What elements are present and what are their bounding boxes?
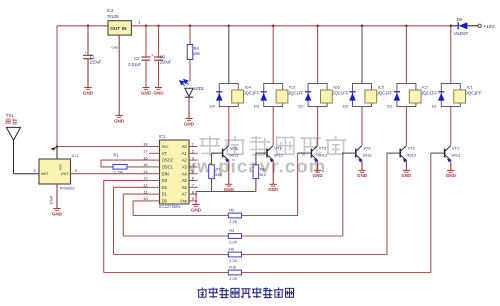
wire: R7 bottom drop: [211, 179, 213, 192]
svg-text:IC6: IC6: [333, 84, 340, 89]
wire: row R2 right segment: [242, 153, 298, 215]
diode D1 (relay IC1 flyback): [438, 91, 444, 93]
svg-text:OSC2: OSC2: [162, 158, 174, 163]
svg-text:VT3: VT3: [363, 145, 371, 150]
svg-text:VT7: VT7: [274, 145, 282, 150]
svg-text:A1: A1: [182, 151, 188, 156]
svg-text:R10: R10: [229, 265, 237, 270]
svg-text:D1: D1: [162, 192, 168, 197]
svg-text:IC2: IC2: [107, 8, 114, 13]
wire: VT8 base stub: [212, 152, 223, 154]
resistor R9: [228, 252, 241, 257]
relay IC6 JQC1FF: [308, 84, 327, 107]
svg-text:A2: A2: [182, 158, 188, 163]
svg-text:510: 510: [260, 172, 267, 177]
svg-text:TX1: TX1: [6, 113, 14, 118]
voltage regulator IC2 78L05: [108, 21, 131, 35]
ground: under C2: [141, 88, 152, 96]
svg-text:D3: D3: [162, 178, 168, 183]
led LED1: [180, 81, 185, 86]
resistor R2: [228, 213, 241, 218]
node: relay IC1 rail tap: [450, 25, 453, 28]
ground: under regulator: [114, 116, 125, 124]
wire: regulator OUT rail to left vertical: [57, 25, 108, 27]
wire: VT2 emitter to ground: [405, 160, 407, 170]
ground: receiver: [52, 209, 63, 217]
svg-text:GND: GND: [191, 207, 202, 212]
wire: row R9 left segment: [114, 254, 229, 256]
wire: relay IC6 to transistor collector: [317, 107, 319, 146]
wire: IC1 pin stubs: [149, 146, 160, 148]
svg-text:D4: D4: [210, 104, 216, 109]
svg-text:JQC1FF: JQC1FF: [332, 91, 348, 96]
transistor VT1 9013: [444, 149, 446, 158]
watermark line1 (gray CJK outline): [200, 136, 347, 156]
resistor R4: [189, 26, 191, 45]
relay IC4 JQC1FF: [219, 84, 238, 107]
svg-text:10K: 10K: [193, 51, 201, 56]
wire: R6 to base: [255, 153, 257, 165]
svg-text:D2: D2: [162, 185, 168, 190]
svg-text:510: 510: [215, 172, 222, 177]
svg-text:9013: 9013: [229, 153, 239, 158]
svg-text:GND: GND: [112, 46, 120, 50]
wire: Vss pin9 to ground: [196, 201, 198, 204]
relay IC3 JQC1FF: [264, 84, 283, 107]
wire: relay IC4 to transistor collector: [228, 107, 230, 146]
wire: VT5 emitter to ground: [317, 160, 319, 170]
diode D2 (relay IC2 flyback): [394, 91, 400, 93]
svg-text:R3: R3: [229, 228, 234, 233]
svg-text:A3: A3: [182, 165, 188, 170]
svg-text:0.01uF: 0.01uF: [128, 62, 141, 67]
svg-text:D3: D3: [343, 104, 349, 109]
svg-text:GND: GND: [401, 173, 412, 178]
relay IC1 JQC1FF: [441, 84, 460, 107]
ground: IC1 Vss: [191, 205, 202, 213]
wire: row R9 right segment: [242, 153, 388, 254]
ground: VT3 emitter: [357, 170, 368, 178]
wire: receiver OUT to DIN: [71, 173, 150, 175]
node: C1 tap junction: [87, 25, 90, 28]
svg-text:JQC1FF: JQC1FF: [466, 91, 482, 96]
ground: VT7 emitter: [268, 184, 279, 192]
svg-text:D3: D3: [254, 104, 260, 109]
svg-text:GND: GND: [312, 173, 323, 178]
svg-text:RXB062: RXB062: [60, 186, 76, 191]
diode D9 1N4007: [451, 25, 458, 27]
svg-text:GND: GND: [49, 196, 54, 205]
svg-text:17: 17: [143, 149, 148, 154]
wire: relay IC2 to transistor collector: [405, 107, 407, 146]
wire: R6 bottom drop: [255, 179, 257, 192]
ground: under C3: [153, 88, 164, 96]
svg-text:IC1: IC1: [72, 153, 79, 158]
node: relay IC2 rail tap: [405, 25, 408, 28]
wire: receiver Vcc stub: [56, 147, 58, 160]
capacitor C2: [145, 26, 147, 57]
svg-text:9013: 9013: [274, 153, 284, 158]
wire: D0 (pin13) to row4: [133, 201, 149, 216]
ground: VT5 emitter: [312, 170, 323, 178]
wire: relay IC3 coil to +12V rail: [272, 26, 274, 84]
wire: VT1 base stub: [431, 152, 445, 154]
svg-text:OUT: OUT: [61, 172, 70, 176]
wire: relay IC5 coil to +12V rail: [361, 26, 363, 84]
ground: VT8 emitter: [224, 184, 235, 192]
svg-text:78L05: 78L05: [107, 14, 120, 19]
svg-text:Vcc: Vcc: [162, 144, 169, 149]
svg-text:OSC1: OSC1: [162, 165, 174, 170]
svg-text:VT8: VT8: [230, 145, 238, 150]
svg-text:JQC1FF: JQC1FF: [421, 91, 437, 96]
node: module Vcc tap: [56, 145, 59, 148]
svg-text:220uF: 220uF: [90, 59, 102, 64]
svg-text:9013: 9013: [363, 153, 373, 158]
node: R4 tap: [189, 25, 192, 28]
wire: VT3 base stub: [342, 152, 356, 154]
resistor R1: [113, 165, 127, 170]
svg-text:A5: A5: [182, 178, 188, 183]
svg-text:VT1: VT1: [452, 145, 460, 150]
diode D2 (relay IC6 flyback): [305, 91, 311, 93]
svg-text:GND: GND: [114, 118, 125, 123]
diode D3 (relay IC3 flyback): [261, 91, 267, 93]
wire: relay IC6 coil to +12V rail: [317, 26, 319, 84]
node: C3 tap: [157, 25, 160, 28]
svg-text:9013: 9013: [451, 153, 461, 158]
svg-text:R2: R2: [229, 208, 234, 213]
svg-text:A6: A6: [182, 185, 188, 190]
wire: VT1 emitter to ground: [450, 160, 452, 170]
svg-text:D2: D2: [387, 104, 393, 109]
wire: row R2 left segment: [133, 215, 228, 217]
wire: VT3 emitter to ground: [361, 160, 363, 170]
wire: row R10 right segment: [242, 153, 431, 272]
wire: row R3 right segment: [242, 153, 343, 236]
wire: relay IC2 coil to +12V rail: [405, 26, 407, 84]
wire: relay IC1 to transistor collector: [450, 107, 452, 146]
svg-text:IC3: IC3: [289, 84, 296, 89]
svg-text:SC2272M4: SC2272M4: [159, 204, 181, 209]
svg-text:D1: D1: [432, 104, 438, 109]
wire: row R10 left segment: [104, 272, 229, 274]
svg-text:+12V: +12V: [483, 24, 495, 30]
ground: VT2 emitter: [401, 170, 412, 178]
ground: under C1: [83, 88, 94, 96]
svg-text:220uF: 220uF: [160, 59, 172, 64]
capacitor C3: [158, 26, 160, 57]
wire: OSC1 loop: [101, 160, 149, 167]
svg-text:D0: D0: [162, 199, 168, 204]
svg-text:JQC1FF: JQC1FF: [377, 91, 393, 96]
antenna TX1: [6, 127, 20, 140]
wire: Vcc rail (pin18) to regulator output: [57, 146, 149, 148]
ground: VT1 emitter: [446, 170, 457, 178]
wire: receiver GND pin: [56, 184, 58, 208]
svg-text:2.2K: 2.2K: [229, 276, 237, 281]
svg-text:2.2K: 2.2K: [229, 219, 237, 224]
node: relay IC6 rail tap: [316, 25, 319, 28]
node: relay IC5 rail tap: [361, 25, 364, 28]
wire: relay IC1 coil to +12V rail: [450, 26, 452, 84]
svg-text:JQC1FF: JQC1FF: [288, 91, 304, 96]
svg-text:ANT: ANT: [41, 172, 49, 176]
wire: D2 (pin11) to row2: [114, 187, 150, 254]
svg-text:OUT: OUT: [110, 26, 120, 31]
svg-text:Vss: Vss: [180, 199, 187, 204]
wire: D1 (pin12) to row3: [123, 194, 149, 236]
resistor R6: [253, 165, 259, 179]
node: relay IC4 rail tap: [228, 25, 231, 28]
wire: VT7 base stub: [256, 152, 267, 154]
svg-text:R4: R4: [194, 46, 200, 51]
wire: row R3 left segment: [123, 235, 228, 237]
title 主控制器电路原理图: [198, 288, 294, 299]
svg-text:2.2K: 2.2K: [229, 258, 237, 263]
transistor VT5 9013: [310, 149, 312, 158]
svg-text:VT: VT: [162, 151, 168, 156]
resistor R3: [228, 234, 241, 239]
svg-text:9013: 9013: [407, 153, 417, 158]
svg-text:A4: A4: [182, 171, 188, 176]
node: rail right end junction: [450, 25, 453, 28]
svg-text:IC2: IC2: [422, 84, 429, 89]
diode D4 (relay IC4 flyback): [216, 91, 222, 93]
terminal +12V: [478, 24, 481, 27]
svg-text:GND: GND: [446, 173, 457, 178]
svg-text:IC4: IC4: [245, 84, 252, 89]
wire: base resistor common to Vss: [196, 191, 256, 193]
svg-text:IC1: IC1: [467, 84, 474, 89]
svg-text:GND: GND: [153, 90, 164, 95]
svg-text:GND: GND: [268, 187, 279, 192]
svg-text:GND: GND: [141, 90, 152, 95]
svg-text:IN: IN: [122, 26, 127, 31]
wire: VT2 base stub: [386, 152, 400, 154]
wire: left vertical 5V drop: [56, 26, 58, 147]
relay IC2 JQC1FF: [397, 84, 416, 107]
resistor R7: [209, 165, 215, 179]
resistor R10: [228, 270, 241, 275]
node: C2 tap: [145, 25, 148, 28]
svg-text:D9: D9: [457, 17, 463, 22]
relay IC5 JQC1FF: [353, 84, 372, 107]
svg-text:GND: GND: [357, 173, 368, 178]
svg-text:R1: R1: [114, 153, 120, 158]
diode D3 (relay IC5 flyback): [349, 91, 355, 93]
svg-text:A0: A0: [182, 144, 188, 149]
wire: regulator GND pin: [118, 35, 120, 115]
transistor VT2 9013: [399, 149, 401, 158]
capacitor C1: [87, 26, 89, 56]
wire: D3 (pin10) to row1: [104, 181, 149, 273]
label antenna CJK: [6, 119, 10, 124]
svg-text:Vcc: Vcc: [58, 164, 62, 170]
wire: relay IC4 coil to +12V rail: [228, 26, 230, 84]
svg-text:IC5: IC5: [378, 84, 385, 89]
wire: VT8 emitter to ground: [228, 160, 230, 184]
node: relay IC3 rail tap: [272, 25, 275, 28]
transistor VT8 9013: [222, 149, 224, 158]
IC IC1 SC2272-M4 decoder body: [160, 140, 190, 204]
svg-text:A7: A7: [182, 192, 188, 197]
receiver module body: [39, 159, 71, 184]
svg-text:VT2: VT2: [408, 145, 416, 150]
transistor VT3 9013: [355, 149, 357, 158]
svg-text:GND: GND: [52, 211, 63, 216]
wire: antenna to receiver pin1: [14, 173, 40, 175]
wire: +12V rail: [131, 25, 450, 27]
wire: relay IC5 to transistor collector: [361, 107, 363, 146]
svg-text:9013: 9013: [318, 153, 328, 158]
svg-text:IC1: IC1: [159, 134, 166, 139]
svg-text:R6: R6: [260, 166, 265, 171]
svg-text:JQC1FF: JQC1FF: [244, 91, 260, 96]
svg-text:R9: R9: [229, 247, 234, 252]
svg-text:LED1: LED1: [194, 86, 205, 91]
svg-text:DIN: DIN: [162, 171, 169, 176]
svg-text:1N4007: 1N4007: [454, 31, 469, 36]
svg-text:2.2K: 2.2K: [229, 239, 237, 244]
wire: R7 to base: [211, 153, 213, 165]
svg-text:C2: C2: [134, 56, 140, 61]
svg-text:GND: GND: [83, 90, 94, 95]
wire: VT5 base stub: [298, 152, 312, 154]
wire: VT7 emitter to ground: [272, 160, 274, 184]
svg-text:VT5: VT5: [319, 145, 327, 150]
svg-text:D2: D2: [298, 104, 304, 109]
svg-text:R7: R7: [216, 166, 221, 171]
transistor VT7 9013: [266, 149, 268, 158]
wire: relay IC3 to transistor collector: [272, 107, 274, 146]
wire: R1 to OSC2 pin: [127, 166, 149, 168]
svg-text:GND: GND: [184, 121, 195, 126]
ground: under LED1: [184, 119, 195, 127]
